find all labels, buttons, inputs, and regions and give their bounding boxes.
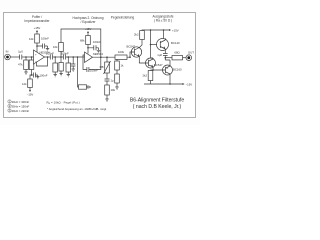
svg-text:BC160: BC160 (173, 68, 182, 72)
legend switch position 1 (8, 100, 30, 104)
svg-text:100nF: 100nF (90, 68, 98, 72)
svg-text:1μ0: 1μ0 (157, 53, 162, 57)
transistor Q4 BC160 output PNP (162, 60, 182, 84)
resistor chain mid to ground (59, 57, 63, 76)
resistor 12k buffer (29, 34, 39, 43)
svg-text:100nF: 100nF (93, 40, 101, 44)
wire hp to opamp (66, 56, 85, 58)
svg-text:100nF: 100nF (61, 51, 69, 55)
junction pot node (106, 56, 108, 58)
svg-text:/ Equalizer: / Equalizer (80, 20, 96, 24)
output jack OUT (186, 51, 194, 61)
capacitor 100nF buffer V- (32, 73, 48, 78)
svg-text:−15V: −15V (27, 93, 34, 97)
svg-text:2k2: 2k2 (134, 33, 139, 37)
svg-text:30Hz = 300nF: 30Hz = 300nF (12, 100, 30, 104)
svg-text:Pegeleinstellung: Pegeleinstellung (111, 16, 135, 20)
svg-text:RB = 10kΩ · Pegel (Pot.): RB = 10kΩ · Pegel (Pot.) (47, 101, 80, 106)
svg-text:B6-Alignment Filterstufe: B6-Alignment Filterstufe (130, 98, 185, 104)
svg-text:12k: 12k (22, 82, 27, 86)
footnote (47, 107, 107, 111)
junction chain C (72, 56, 74, 58)
input jack IN (5, 50, 11, 60)
svg-text:Impedanzwandler: Impedanzwandler (24, 19, 50, 23)
transistor Q3 BC140 output NPN (157, 38, 180, 53)
op-amp U1 NE5534 buffer (34, 50, 51, 64)
svg-text:1μ: 1μ (111, 79, 115, 83)
junction V- node (31, 74, 33, 76)
section header: Pegeleinstellung (111, 16, 135, 20)
wire rail to Q3 collector (163, 30, 165, 38)
svg-text:( Ra ≤ 50 Ω ): ( Ra ≤ 50 Ω ) (154, 19, 172, 23)
resistor 10k pegel lower (105, 81, 116, 101)
svg-text:+15V: +15V (85, 27, 92, 31)
resistor 68k equalizer supply (80, 36, 90, 54)
resistor 12k buffer V- (22, 79, 32, 88)
+15V supply buffer (34, 26, 41, 34)
resistor 10k bootstrap (53, 43, 63, 58)
junction Q3 base node (150, 44, 152, 46)
wire to out jack (183, 57, 187, 59)
svg-text:68k: 68k (80, 39, 85, 43)
junction chain B (68, 56, 70, 58)
svg-text:OUT: OUT (188, 51, 194, 55)
svg-text:NE5534: NE5534 (93, 52, 104, 56)
title line 1 (130, 98, 185, 104)
junction input node A (25, 56, 27, 58)
svg-text:1μ0: 1μ0 (18, 50, 23, 54)
capacitor chain C to ground (71, 57, 75, 71)
resistor 1k pegel (115, 56, 124, 70)
wire hp mid node (53, 56, 64, 58)
svg-text:10k: 10k (111, 88, 116, 92)
capacitor input parallel (29, 57, 34, 75)
wire Q2 emitter to Q4 base (151, 69, 163, 71)
resistor pegel lower2 (115, 70, 120, 89)
svg-text:100nF: 100nF (41, 37, 49, 41)
capacitor 100nF eq supply (88, 40, 101, 51)
wire Q1 emitter to Q2 base (139, 57, 145, 64)
svg-text:BC547: BC547 (127, 45, 136, 49)
svg-text:IN: IN (6, 50, 9, 54)
junction chain A (54, 56, 56, 58)
junction input node B (31, 56, 33, 58)
capacitor 1u0 input (18, 50, 23, 60)
wire jack to cap (10, 56, 19, 58)
wire output node right (165, 57, 172, 59)
junction hp mid (60, 56, 62, 58)
capacitor 100nF hp1 (46, 51, 54, 59)
wire down to lower resistor (78, 57, 79, 87)
legend switch position 3 (8, 109, 30, 113)
feedback loop buffer (37, 56, 49, 66)
svg-text:47k: 47k (18, 63, 23, 67)
wire base Q3 (151, 44, 158, 46)
resistor lower eq (79, 85, 91, 89)
legend switch position 2 (8, 104, 30, 108)
wire to Q1 base (127, 52, 132, 58)
border frame (4, 13, 196, 118)
svg-text:40Hz = 220nF: 40Hz = 220nF (12, 109, 30, 113)
+15V rail output stage (150, 29, 179, 33)
svg-text:68Ω: 68Ω (174, 51, 179, 55)
junction long wire (77, 56, 79, 58)
section header: Ausgangsstufe (152, 15, 173, 23)
capacitor 1u pegel (105, 73, 115, 83)
junction buffer V+ (36, 45, 38, 47)
potentiometer 10k RB pegel (100, 57, 111, 74)
svg-text:2k2: 2k2 (142, 74, 147, 78)
svg-text:( nach D.B Keele, Jr.): ( nach D.B Keele, Jr.) (133, 104, 182, 110)
section header: Hochpass 2. Ordnung / Equalizer (72, 16, 103, 24)
wire eq output to pegel (93, 56, 116, 58)
junction output node (165, 57, 167, 59)
wire 12k to opamp (36, 43, 38, 52)
junction eq V+ (87, 47, 89, 49)
capacitor 1u0 output mid (157, 53, 167, 60)
svg-text:RB: RB (100, 65, 104, 69)
svg-text:+15V: +15V (172, 29, 179, 33)
resistor chain B to ground (66, 57, 71, 77)
formula RB (47, 101, 80, 106)
+15V supply equalizer (85, 27, 92, 36)
resistor 68 output series (172, 51, 183, 60)
ground buffer V+ cap (46, 46, 49, 51)
svg-text:−15V: −15V (186, 83, 193, 87)
svg-text:BC547: BC547 (154, 63, 163, 67)
resistor chain A to ground (53, 57, 58, 77)
op-amp U2 NE5534 equalizer (85, 52, 104, 63)
wire opamp output (45, 56, 51, 58)
resistor 2k2 driver emitter (142, 70, 152, 84)
wire cap to opamp (22, 56, 34, 58)
title line 2 (133, 104, 182, 110)
transistor Q2 BC547 driver (145, 58, 163, 69)
wire to 12k lower (30, 75, 32, 79)
resistor 47k input to ground (18, 57, 28, 74)
bootstrap wire equalizer (61, 29, 101, 57)
resistor 2k2 pegel collector (134, 30, 151, 48)
-15V rail output stage (144, 83, 192, 87)
svg-text:100k: 100k (118, 50, 125, 54)
capacitor 100nF hp2 (61, 51, 69, 59)
svg-text:12k: 12k (29, 37, 34, 41)
-15V supply buffer (27, 88, 34, 97)
section header: Puffer / Impedanzwandler (24, 15, 50, 23)
svg-text:35Hz = 150nF: 35Hz = 150nF (12, 105, 30, 109)
resistor 100k pegel series (115, 50, 127, 59)
junction eq output (100, 56, 102, 58)
capacitor 100nF buffer V+ (37, 37, 49, 49)
svg-text:100nF: 100nF (40, 73, 48, 77)
svg-text:+15V: +15V (34, 26, 41, 30)
svg-text:BC140: BC140 (171, 41, 180, 45)
transistor Q1 BC547 pegel (127, 45, 142, 58)
svg-text:100nF: 100nF (46, 51, 54, 55)
ground buffer V- cap (36, 75, 39, 79)
svg-text:* Angleichend Anpassung an -1: * Angleichend Anpassung an -10dB/+6dB- m… (47, 107, 107, 111)
svg-text:10k: 10k (53, 45, 58, 49)
ground eq supply cap (97, 48, 100, 53)
feedback loop equalizer (83, 55, 101, 72)
wire rail to Q2 collector (150, 30, 152, 58)
